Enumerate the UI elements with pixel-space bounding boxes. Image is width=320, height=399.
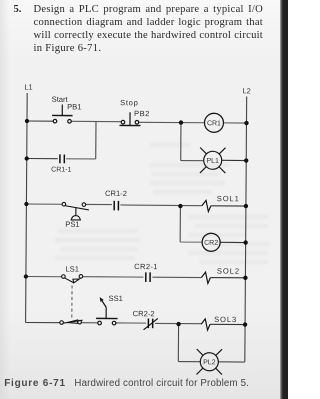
svg-text:PL2: PL2 — [203, 359, 216, 366]
svg-text:PB2: PB2 — [134, 109, 150, 118]
svg-text:SOL2: SOL2 — [217, 267, 240, 276]
svg-text:PB1: PB1 — [67, 102, 81, 111]
svg-text:SOL3: SOL3 — [214, 315, 237, 324]
svg-text:CR1-2: CR1-2 — [105, 189, 127, 198]
svg-text:Stop: Stop — [120, 98, 138, 107]
svg-text:PL1: PL1 — [206, 158, 219, 165]
svg-text:CR1-1: CR1-1 — [51, 166, 71, 173]
svg-text:CR2-1: CR2-1 — [134, 262, 158, 271]
svg-text:SOL1: SOL1 — [217, 194, 240, 203]
svg-text:L1: L1 — [24, 82, 32, 91]
svg-text:CR2: CR2 — [204, 240, 218, 247]
svg-text:LS1: LS1 — [65, 264, 79, 273]
svg-text:PS1: PS1 — [65, 220, 79, 229]
svg-text:L2: L2 — [242, 86, 250, 95]
svg-text:CR1: CR1 — [207, 120, 221, 127]
svg-text:CR2-2: CR2-2 — [133, 309, 155, 318]
svg-text:Start: Start — [52, 95, 69, 104]
svg-text:SS1: SS1 — [109, 294, 123, 303]
